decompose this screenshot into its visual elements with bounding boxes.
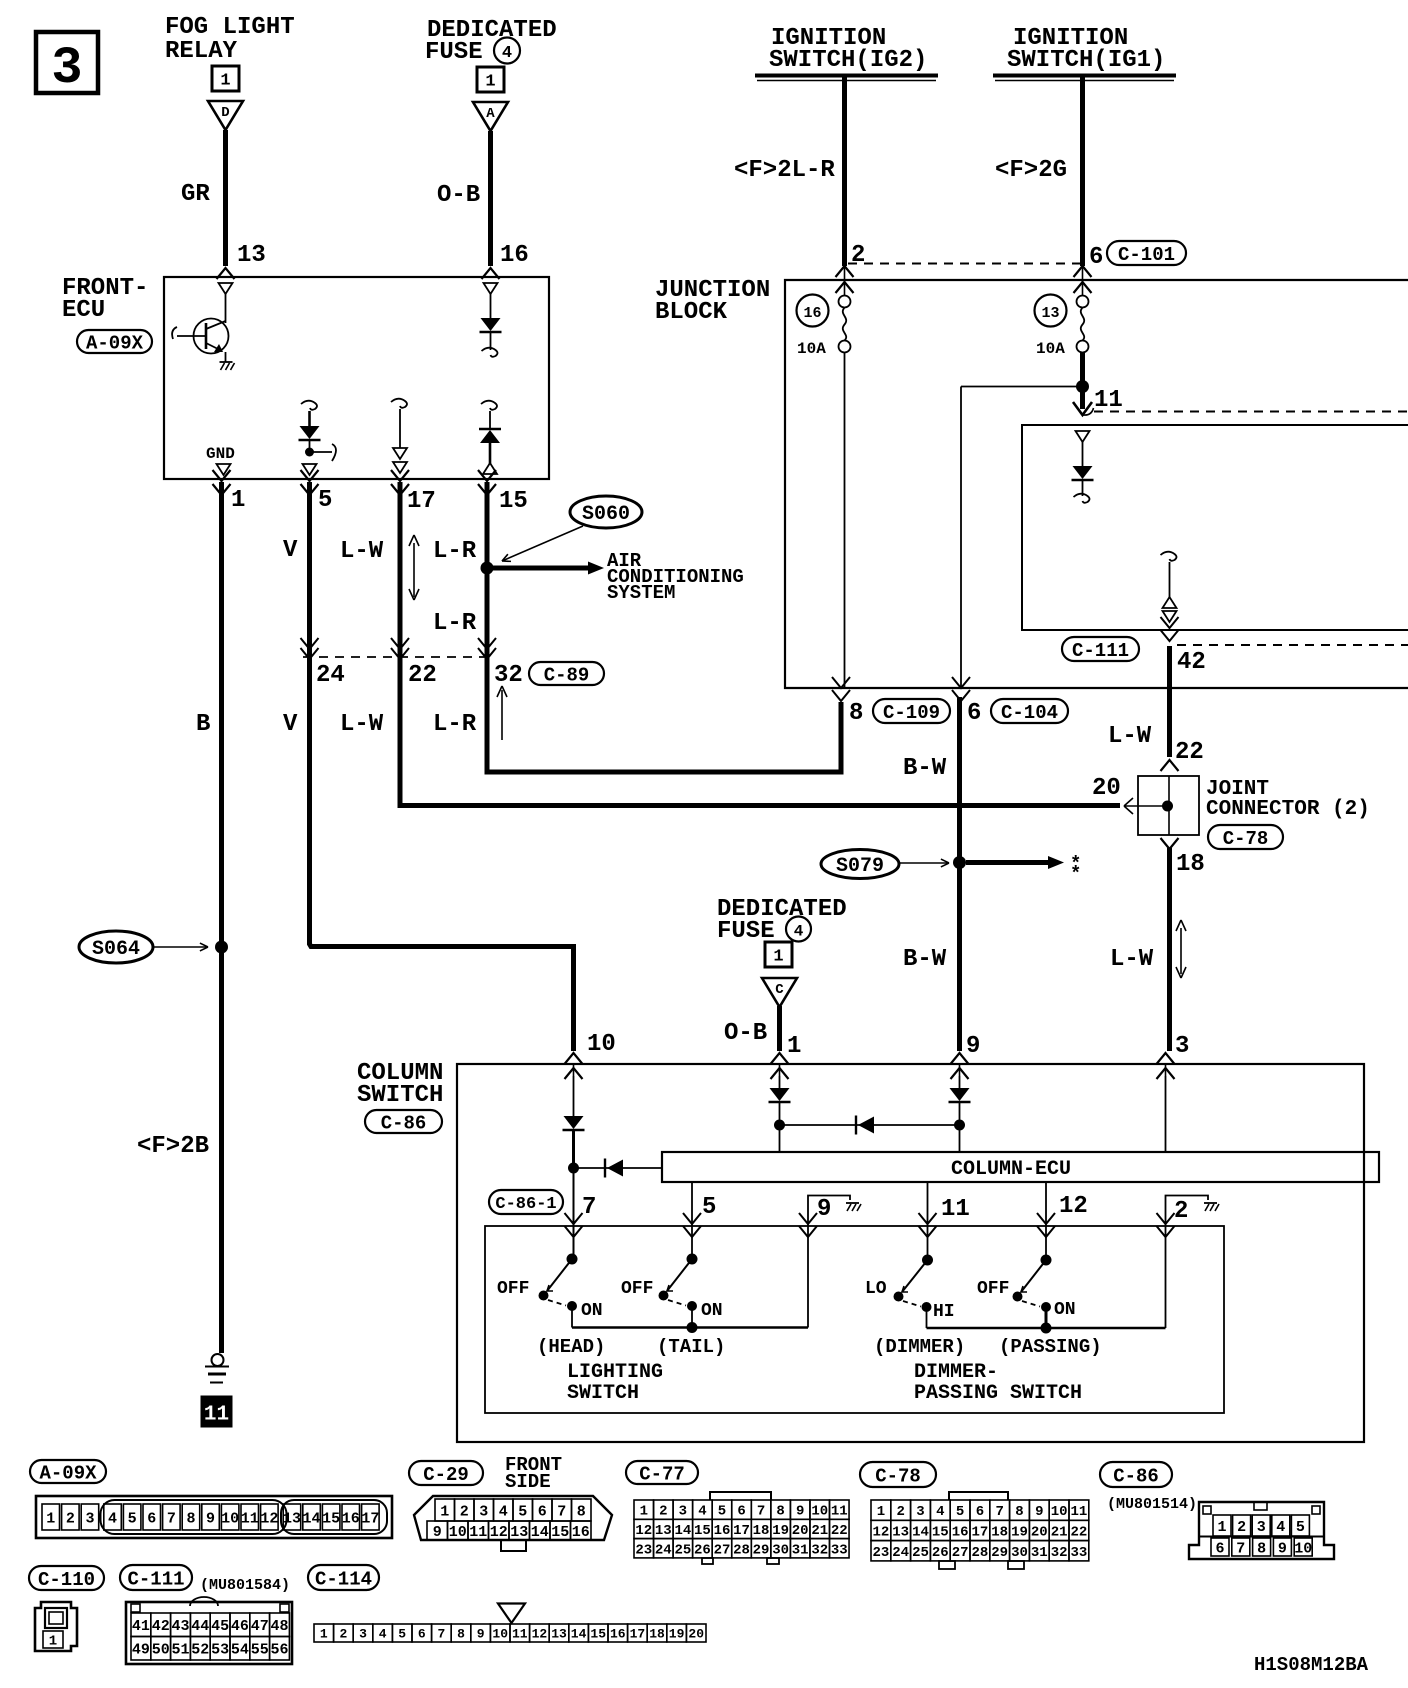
svg-text:19: 19: [1011, 1524, 1028, 1540]
svg-text:45: 45: [211, 1618, 229, 1635]
svg-text:8: 8: [186, 1510, 195, 1527]
svg-text:1: 1: [46, 1510, 55, 1527]
svg-text:L-W: L-W: [340, 711, 384, 738]
svg-text:48: 48: [270, 1618, 288, 1635]
svg-text:L-R: L-R: [433, 538, 477, 565]
svg-text:21: 21: [811, 1523, 828, 1539]
svg-text:6: 6: [538, 1503, 547, 1520]
svg-text:L-W: L-W: [1110, 946, 1154, 973]
svg-text:ECU: ECU: [62, 297, 105, 324]
svg-text:8: 8: [849, 700, 863, 727]
svg-text:16: 16: [714, 1523, 731, 1539]
svg-text:49: 49: [132, 1642, 150, 1659]
svg-text:13: 13: [1041, 305, 1059, 322]
svg-text:27: 27: [952, 1545, 969, 1561]
svg-text:6: 6: [418, 1627, 426, 1642]
svg-text:<F>2G: <F>2G: [995, 157, 1067, 184]
svg-text:8: 8: [1257, 1540, 1266, 1557]
svg-text:21: 21: [1051, 1524, 1068, 1540]
svg-text:1: 1: [440, 1503, 449, 1520]
svg-text:FUSE: FUSE: [425, 39, 483, 66]
svg-text:5: 5: [1296, 1519, 1305, 1536]
svg-text:12: 12: [260, 1510, 278, 1527]
svg-text:(MU801584): (MU801584): [200, 1577, 290, 1594]
svg-text:18: 18: [1176, 851, 1205, 878]
svg-text:C-86-1: C-86-1: [495, 1195, 556, 1214]
svg-text:22: 22: [1175, 739, 1204, 766]
svg-text:53: 53: [211, 1642, 229, 1659]
svg-text:29: 29: [753, 1542, 770, 1558]
svg-text:5: 5: [128, 1510, 137, 1527]
svg-text:1: 1: [877, 1504, 885, 1520]
svg-text:1: 1: [220, 72, 230, 91]
svg-text:BLOCK: BLOCK: [655, 299, 728, 326]
svg-text:17: 17: [361, 1510, 379, 1527]
svg-text:C-111: C-111: [1072, 640, 1129, 662]
svg-text:13: 13: [237, 242, 266, 269]
svg-text:9: 9: [206, 1510, 215, 1527]
svg-text:26: 26: [694, 1542, 711, 1558]
svg-text:HI: HI: [933, 1302, 955, 1322]
svg-text:O-B: O-B: [437, 182, 480, 209]
svg-text:5: 5: [956, 1504, 964, 1520]
svg-text:4: 4: [794, 923, 804, 941]
svg-text:22: 22: [831, 1523, 848, 1539]
svg-text:1: 1: [1217, 1519, 1226, 1536]
svg-text:10: 10: [811, 1504, 828, 1520]
svg-text:L-W: L-W: [340, 538, 384, 565]
svg-text:LIGHTING: LIGHTING: [567, 1361, 663, 1384]
svg-text:7: 7: [557, 1503, 566, 1520]
svg-text:7: 7: [167, 1510, 176, 1527]
svg-text:5: 5: [318, 487, 332, 514]
svg-text:7: 7: [1236, 1540, 1245, 1557]
svg-text:(HEAD): (HEAD): [537, 1336, 605, 1358]
svg-text:4: 4: [936, 1504, 944, 1520]
svg-text:9: 9: [817, 1196, 831, 1223]
svg-text:OFF: OFF: [497, 1279, 529, 1299]
svg-text:16: 16: [610, 1627, 626, 1642]
svg-text:19: 19: [772, 1523, 789, 1539]
svg-text:30: 30: [1011, 1545, 1028, 1561]
svg-text:25: 25: [912, 1545, 929, 1561]
svg-text:C: C: [775, 982, 784, 998]
svg-text:11: 11: [941, 1196, 970, 1223]
svg-text:15: 15: [694, 1523, 711, 1539]
svg-text:42: 42: [1177, 649, 1206, 676]
svg-text:4: 4: [698, 1504, 706, 1520]
svg-text:7: 7: [995, 1504, 1003, 1520]
svg-text:2: 2: [339, 1627, 347, 1642]
svg-text:C-109: C-109: [883, 702, 940, 724]
svg-text:6: 6: [1215, 1540, 1224, 1557]
svg-text:B: B: [196, 711, 210, 738]
svg-text:GR: GR: [181, 181, 210, 208]
svg-text:2: 2: [1237, 1519, 1246, 1536]
svg-text:50: 50: [152, 1642, 170, 1659]
svg-text:L-R: L-R: [433, 711, 477, 738]
svg-text:C-114: C-114: [315, 1568, 372, 1590]
svg-text:15: 15: [551, 1524, 569, 1541]
svg-text:SWITCH(IG1): SWITCH(IG1): [1007, 47, 1165, 74]
svg-text:A-09X: A-09X: [39, 1462, 97, 1484]
svg-text:9: 9: [966, 1033, 980, 1060]
svg-text:O-B: O-B: [724, 1020, 767, 1047]
svg-text:16: 16: [952, 1524, 969, 1540]
svg-text:22: 22: [408, 662, 437, 689]
svg-text:2: 2: [66, 1510, 75, 1527]
svg-text:20: 20: [792, 1523, 809, 1539]
svg-text:5: 5: [718, 1504, 726, 1520]
svg-text:24: 24: [892, 1545, 909, 1561]
svg-text:C-111: C-111: [127, 1568, 184, 1590]
svg-text:9: 9: [1035, 1504, 1043, 1520]
svg-text:6: 6: [967, 700, 981, 727]
svg-text:C-77: C-77: [639, 1463, 685, 1485]
svg-text:54: 54: [231, 1642, 249, 1659]
svg-text:18: 18: [649, 1627, 665, 1642]
svg-text:4: 4: [502, 44, 512, 63]
svg-text:6: 6: [1089, 244, 1103, 271]
svg-text:(TAIL): (TAIL): [657, 1336, 725, 1358]
svg-text:10: 10: [1294, 1540, 1312, 1557]
svg-text:12: 12: [532, 1627, 548, 1642]
svg-text:29: 29: [991, 1545, 1008, 1561]
svg-text:(PASSING): (PASSING): [999, 1336, 1102, 1358]
svg-text:SWITCH: SWITCH: [567, 1382, 639, 1405]
svg-text:SIDE: SIDE: [505, 1471, 551, 1493]
svg-text:9: 9: [1278, 1540, 1287, 1557]
svg-text:1: 1: [787, 1033, 801, 1060]
svg-text:<F>2B: <F>2B: [137, 1133, 209, 1160]
svg-text:C-89: C-89: [544, 664, 590, 686]
svg-text:28: 28: [971, 1545, 988, 1561]
svg-text:17: 17: [630, 1627, 646, 1642]
svg-text:16: 16: [342, 1510, 360, 1527]
svg-text:14: 14: [531, 1524, 549, 1541]
svg-text:3: 3: [1257, 1519, 1266, 1536]
svg-text:S079: S079: [836, 855, 884, 878]
svg-text:9: 9: [477, 1627, 485, 1642]
svg-text:C-78: C-78: [875, 1465, 921, 1487]
svg-text:33: 33: [1070, 1545, 1087, 1561]
svg-text:15: 15: [499, 488, 528, 515]
svg-text:12: 12: [490, 1524, 508, 1541]
svg-text:OFF: OFF: [621, 1279, 653, 1299]
svg-text:22: 22: [1070, 1524, 1087, 1540]
svg-text:33: 33: [831, 1542, 848, 1558]
svg-text:32: 32: [811, 1542, 828, 1558]
svg-text:1: 1: [231, 487, 245, 514]
svg-text:10: 10: [221, 1510, 239, 1527]
svg-text:3: 3: [916, 1504, 924, 1520]
svg-text:8: 8: [776, 1504, 784, 1520]
svg-text:41: 41: [132, 1618, 150, 1635]
svg-text:3: 3: [85, 1510, 94, 1527]
svg-text:12: 12: [635, 1523, 652, 1539]
svg-text:43: 43: [171, 1618, 189, 1635]
svg-text:8: 8: [577, 1503, 586, 1520]
svg-text:8: 8: [457, 1627, 465, 1642]
svg-text:D: D: [221, 105, 229, 121]
svg-text:4: 4: [108, 1510, 117, 1527]
svg-text:11: 11: [1094, 387, 1123, 414]
svg-text:16: 16: [572, 1524, 590, 1541]
svg-text:A-09X: A-09X: [86, 332, 144, 354]
svg-text:56: 56: [270, 1642, 288, 1659]
svg-text:24: 24: [316, 662, 345, 689]
svg-text:10A: 10A: [1036, 340, 1065, 358]
svg-text:S064: S064: [92, 938, 140, 961]
svg-text:13: 13: [283, 1510, 301, 1527]
svg-text:C-101: C-101: [1118, 244, 1175, 266]
svg-text:(DIMMER): (DIMMER): [874, 1336, 965, 1358]
svg-text:FOG LIGHT: FOG LIGHT: [165, 14, 295, 41]
svg-text:31: 31: [792, 1542, 809, 1558]
svg-text:4: 4: [379, 1627, 387, 1642]
svg-text:31: 31: [1031, 1545, 1048, 1561]
svg-text:14: 14: [674, 1523, 691, 1539]
svg-text:10: 10: [449, 1524, 467, 1541]
svg-text:6: 6: [147, 1510, 156, 1527]
svg-text:14: 14: [571, 1627, 587, 1642]
svg-text:3: 3: [359, 1627, 367, 1642]
svg-text:32: 32: [494, 662, 523, 689]
svg-text:V: V: [283, 537, 298, 564]
svg-text:5: 5: [702, 1194, 716, 1221]
svg-text:10A: 10A: [797, 340, 826, 358]
svg-text:9: 9: [796, 1504, 804, 1520]
svg-text:32: 32: [1051, 1545, 1068, 1561]
svg-text:16: 16: [500, 242, 529, 269]
svg-text:7: 7: [582, 1194, 596, 1221]
svg-text:14: 14: [303, 1510, 321, 1527]
svg-text:10: 10: [492, 1627, 508, 1642]
svg-text:25: 25: [674, 1542, 691, 1558]
svg-text:9: 9: [433, 1524, 442, 1541]
svg-text:ON: ON: [581, 1301, 603, 1321]
svg-text:3: 3: [679, 1504, 687, 1520]
svg-text:PASSING SWITCH: PASSING SWITCH: [914, 1382, 1082, 1405]
svg-text:13: 13: [551, 1627, 567, 1642]
svg-text:*: *: [1070, 863, 1081, 885]
svg-text:3: 3: [1175, 1033, 1189, 1060]
svg-text:11: 11: [204, 1404, 229, 1427]
svg-text:27: 27: [714, 1542, 731, 1558]
svg-text:SWITCH: SWITCH: [357, 1082, 443, 1109]
svg-text:1: 1: [320, 1627, 328, 1642]
svg-text:1: 1: [49, 1634, 57, 1650]
svg-text:4: 4: [499, 1503, 508, 1520]
svg-text:20: 20: [1092, 775, 1121, 802]
svg-text:1: 1: [773, 948, 783, 967]
svg-text:6: 6: [976, 1504, 984, 1520]
svg-text:<F>2L-R: <F>2L-R: [734, 157, 835, 184]
svg-text:23: 23: [635, 1542, 652, 1558]
svg-text:H1S08M12BA: H1S08M12BA: [1254, 1654, 1369, 1676]
svg-text:C-110: C-110: [38, 1569, 95, 1591]
svg-text:1: 1: [485, 73, 495, 92]
svg-text:11: 11: [241, 1510, 259, 1527]
svg-text:SWITCH(IG2): SWITCH(IG2): [769, 47, 927, 74]
svg-text:20: 20: [1031, 1524, 1048, 1540]
svg-text:S060: S060: [582, 503, 630, 526]
svg-text:C-78: C-78: [1223, 828, 1269, 850]
svg-text:5: 5: [518, 1503, 527, 1520]
svg-text:47: 47: [251, 1618, 269, 1635]
svg-text:2: 2: [1174, 1198, 1188, 1225]
svg-text:20: 20: [688, 1627, 704, 1642]
svg-text:SYSTEM: SYSTEM: [607, 582, 675, 604]
svg-text:11: 11: [469, 1524, 487, 1541]
svg-text:23: 23: [872, 1545, 889, 1561]
svg-text:10: 10: [1051, 1504, 1068, 1520]
svg-text:3: 3: [479, 1503, 488, 1520]
svg-text:3: 3: [51, 39, 82, 98]
svg-text:L-R: L-R: [433, 610, 477, 637]
svg-text:17: 17: [971, 1524, 988, 1540]
svg-text:1: 1: [640, 1504, 648, 1520]
svg-text:CONNECTOR (2): CONNECTOR (2): [1206, 798, 1370, 821]
svg-text:19: 19: [669, 1627, 685, 1642]
svg-text:A: A: [486, 106, 495, 122]
svg-text:ON: ON: [1054, 1300, 1076, 1320]
svg-text:7: 7: [757, 1504, 765, 1520]
svg-text:17: 17: [733, 1523, 750, 1539]
svg-text:8: 8: [1015, 1504, 1023, 1520]
svg-text:24: 24: [655, 1542, 672, 1558]
svg-text:2: 2: [659, 1504, 667, 1520]
svg-text:7: 7: [437, 1627, 445, 1642]
svg-text:52: 52: [191, 1642, 209, 1659]
svg-text:13: 13: [655, 1523, 672, 1539]
svg-text:5: 5: [398, 1627, 406, 1642]
svg-text:14: 14: [912, 1524, 929, 1540]
svg-text:15: 15: [932, 1524, 949, 1540]
svg-text:OFF: OFF: [977, 1279, 1009, 1299]
svg-text:B-W: B-W: [903, 755, 947, 782]
svg-text:COLUMN-ECU: COLUMN-ECU: [951, 1158, 1071, 1181]
svg-text:C-86: C-86: [1113, 1465, 1159, 1487]
svg-text:GND: GND: [206, 445, 235, 463]
svg-text:44: 44: [191, 1618, 209, 1635]
svg-text:ON: ON: [701, 1301, 723, 1321]
svg-text:V: V: [283, 711, 298, 738]
svg-text:B-W: B-W: [903, 946, 947, 973]
svg-text:13: 13: [892, 1524, 909, 1540]
svg-text:10: 10: [587, 1031, 616, 1058]
svg-text:11: 11: [1070, 1504, 1087, 1520]
svg-text:46: 46: [231, 1618, 249, 1635]
svg-text:C-104: C-104: [1001, 702, 1058, 724]
svg-text:17: 17: [407, 488, 436, 515]
svg-text:2: 2: [460, 1503, 469, 1520]
svg-text:51: 51: [171, 1642, 189, 1659]
svg-text:L-W: L-W: [1108, 723, 1152, 750]
svg-text:4: 4: [1276, 1519, 1285, 1536]
svg-text:(MU801514): (MU801514): [1107, 1496, 1197, 1513]
svg-text:11: 11: [512, 1627, 528, 1642]
svg-text:11: 11: [831, 1504, 848, 1520]
svg-text:C-29: C-29: [423, 1464, 469, 1486]
svg-text:42: 42: [152, 1618, 170, 1635]
svg-text:26: 26: [932, 1545, 949, 1561]
svg-text:13: 13: [510, 1524, 528, 1541]
svg-text:6: 6: [737, 1504, 745, 1520]
svg-text:28: 28: [733, 1542, 750, 1558]
svg-text:15: 15: [590, 1627, 606, 1642]
svg-text:18: 18: [991, 1524, 1008, 1540]
svg-text:30: 30: [772, 1542, 789, 1558]
svg-text:18: 18: [753, 1523, 770, 1539]
svg-text:C-86: C-86: [381, 1112, 427, 1134]
svg-text:2: 2: [896, 1504, 904, 1520]
svg-text:12: 12: [1059, 1193, 1088, 1220]
svg-text:2: 2: [851, 242, 865, 269]
svg-text:DIMMER-: DIMMER-: [914, 1361, 998, 1384]
svg-text:15: 15: [322, 1510, 340, 1527]
svg-text:LO: LO: [865, 1279, 887, 1299]
svg-text:RELAY: RELAY: [165, 38, 238, 65]
svg-text:12: 12: [872, 1524, 889, 1540]
svg-text:55: 55: [251, 1642, 269, 1659]
svg-text:16: 16: [803, 305, 821, 322]
